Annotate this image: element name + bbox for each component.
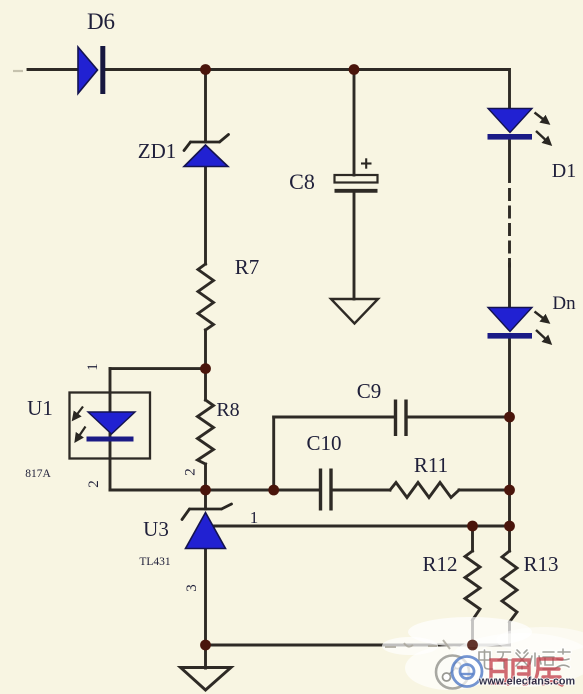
svg-text:2: 2 bbox=[183, 468, 199, 476]
svg-text:1: 1 bbox=[250, 508, 259, 527]
svg-text:D6: D6 bbox=[87, 9, 115, 34]
svg-text:R8: R8 bbox=[216, 399, 239, 421]
svg-text:Dn: Dn bbox=[552, 293, 576, 314]
svg-text:ZD1: ZD1 bbox=[138, 139, 177, 163]
svg-text:C10: C10 bbox=[306, 431, 341, 455]
svg-text:www.elecfans.com: www.elecfans.com bbox=[478, 676, 575, 688]
svg-text:R11: R11 bbox=[414, 453, 448, 477]
svg-text:R12: R12 bbox=[422, 552, 457, 576]
svg-text:1: 1 bbox=[85, 363, 101, 371]
svg-text:817A: 817A bbox=[25, 468, 51, 480]
svg-text:U1: U1 bbox=[27, 396, 53, 420]
svg-text:R13: R13 bbox=[523, 552, 558, 576]
svg-text:C8: C8 bbox=[289, 169, 315, 194]
svg-text:3: 3 bbox=[184, 584, 200, 592]
svg-text:U3: U3 bbox=[143, 517, 169, 541]
svg-text:D1: D1 bbox=[552, 160, 576, 182]
svg-text:2: 2 bbox=[86, 480, 102, 488]
svg-text:R7: R7 bbox=[235, 255, 260, 279]
svg-text:TL431: TL431 bbox=[139, 556, 171, 568]
svg-text:C9: C9 bbox=[357, 379, 382, 403]
